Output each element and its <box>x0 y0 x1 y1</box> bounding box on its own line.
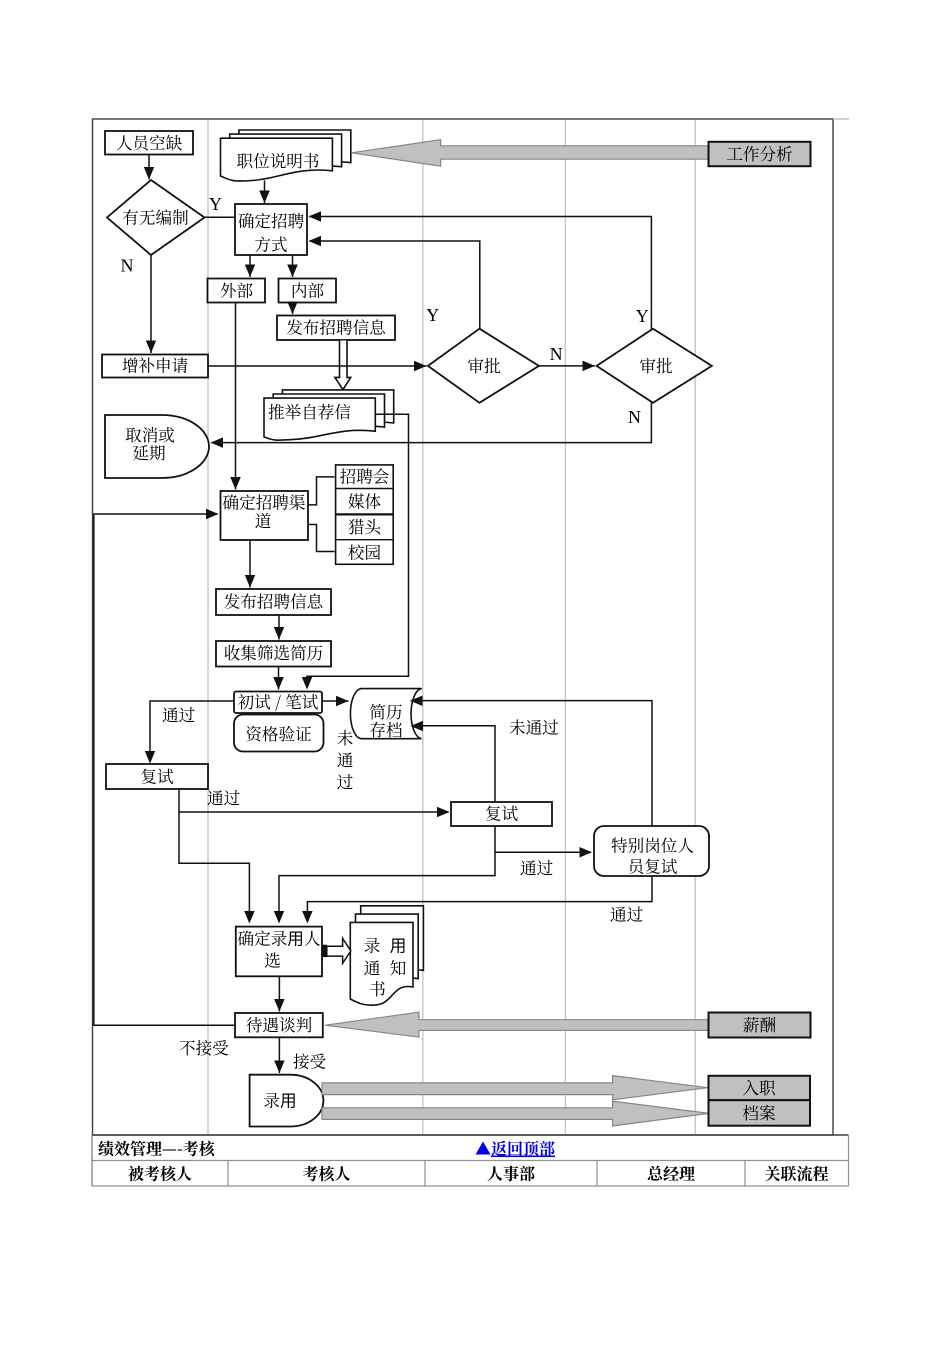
bottom table row separator <box>92 1160 849 1162</box>
wire 审批L-Y feedback to 确定招聘方式 <box>310 241 480 329</box>
svg-text:Y: Y <box>209 194 222 214</box>
svg-text:资格验证: 资格验证 <box>245 721 311 745</box>
channel separator 2 <box>336 513 394 515</box>
terminator 录用 <box>250 1075 324 1127</box>
channel separator 1 <box>336 488 394 490</box>
wire 初试 to 简历存档 <box>322 700 349 702</box>
svg-text:用: 用 <box>390 933 407 957</box>
wire 复试R 未通过 to 简历存档 <box>412 726 496 802</box>
reference box 档案 <box>709 1100 811 1126</box>
svg-text:工作分析: 工作分析 <box>726 141 792 165</box>
wire 特别岗位 通过 chain <box>307 876 652 922</box>
process box 复试L <box>106 764 208 789</box>
gray arrow 工作分析 to 职位说明书 <box>352 140 709 167</box>
wire 审批R N to 取消或延期 <box>212 403 652 443</box>
bottom header cell separator 3 <box>596 1161 598 1187</box>
process box 待遇谈判 <box>235 1013 323 1037</box>
feedback wire 待遇谈判 to 确定招聘渠道 <box>94 514 235 1025</box>
bottom header cell separator 1 <box>227 1161 229 1187</box>
svg-text:录用: 录用 <box>263 1088 296 1112</box>
wire 有无编制 Y to 确定招聘方式 <box>205 216 236 218</box>
svg-text:复试: 复试 <box>140 764 174 788</box>
flowchart outer frame <box>93 119 834 1135</box>
wire 收集 to 初试笔试 <box>278 667 280 690</box>
process box 初试笔试 <box>234 692 322 714</box>
gray arrow 录用 to 入职 <box>322 1076 708 1100</box>
wire 复试L bottom chain <box>179 789 249 922</box>
decision diamond 审批R <box>597 329 712 403</box>
svg-text:方式: 方式 <box>254 232 287 256</box>
svg-text:通过: 通过 <box>610 902 643 926</box>
stored-data shape 简历存档 <box>350 689 421 739</box>
svg-text:通过: 通过 <box>162 702 195 726</box>
svg-text:道: 道 <box>255 508 272 532</box>
svg-text:有无编制: 有无编制 <box>122 205 188 229</box>
svg-text:N: N <box>550 344 563 364</box>
svg-text:录: 录 <box>364 933 381 957</box>
svg-text:入职: 入职 <box>742 1075 776 1099</box>
hollow arrow 确定录用人选 to 录用通知书 <box>322 945 327 957</box>
wire 复试R bottom chain <box>279 826 495 922</box>
wire 发布2 to 收集筛选简历 <box>278 615 280 640</box>
svg-text:员复试: 员复试 <box>628 854 678 878</box>
process box 复试R <box>451 802 552 826</box>
column line 2 <box>422 120 424 1135</box>
svg-text:确定招聘: 确定招聘 <box>238 208 305 232</box>
reference box 工作分析 <box>709 142 811 166</box>
wire 特别岗位 未通过 to 简历存档 <box>411 701 652 826</box>
svg-text:Y: Y <box>426 305 439 325</box>
top-right stub line <box>833 118 849 120</box>
bottom table right border <box>848 1135 850 1186</box>
svg-text:知: 知 <box>390 955 407 979</box>
svg-text:不接受: 不接受 <box>179 1035 229 1059</box>
svg-text:确定录用人: 确定录用人 <box>238 926 321 950</box>
svg-text:媒体: 媒体 <box>348 489 382 513</box>
wire 推举自荐信 to 初试笔试 <box>307 414 409 688</box>
svg-text:职位说明书: 职位说明书 <box>237 148 320 172</box>
terminator 取消或延期 <box>105 415 209 478</box>
svg-text:发布招聘信息: 发布招聘信息 <box>224 589 324 613</box>
bottom table top border <box>92 1134 849 1136</box>
process box 确定录用人选 <box>236 927 322 977</box>
reference box 入职 <box>709 1076 811 1100</box>
wire 确定录用人选 to 待遇谈判 <box>278 976 280 1011</box>
svg-text:审批: 审批 <box>639 353 672 377</box>
svg-text:档案: 档案 <box>742 1100 776 1124</box>
gray arrow 录用 to 档案 <box>322 1101 709 1126</box>
wire 渠道 to 发布招聘信息2 <box>249 540 251 588</box>
svg-text:N: N <box>628 407 641 427</box>
column line 3 <box>564 120 566 1135</box>
svg-text:人事部: 人事部 <box>487 1162 535 1185</box>
process box 人员空缺 <box>105 131 193 155</box>
wire 复试L 通过 to 复试R <box>179 811 449 813</box>
svg-text:待遇谈判: 待遇谈判 <box>246 1012 312 1036</box>
wire 确定招聘方式 to 内部 <box>292 255 294 277</box>
svg-text:薪酬: 薪酬 <box>743 1012 776 1036</box>
column line 4 <box>694 120 696 1135</box>
svg-text:外部: 外部 <box>220 278 254 302</box>
svg-text:复试: 复试 <box>485 801 519 825</box>
svg-text:书: 书 <box>369 976 386 1000</box>
wire 外部 to 确定招聘渠道 <box>235 303 237 490</box>
svg-text:考核人: 考核人 <box>302 1162 350 1185</box>
svg-text:审批: 审批 <box>467 353 500 377</box>
document stack 职位说明书 <box>239 130 351 173</box>
process box 外部 <box>208 279 266 303</box>
svg-text:人员空缺: 人员空缺 <box>116 130 183 154</box>
wire 审批R-Y feedback to 确定招聘方式 <box>310 217 652 330</box>
process box 发布招聘信息2 <box>216 589 331 615</box>
decision diamond 有无编制 <box>107 180 205 255</box>
svg-text:被考核人: 被考核人 <box>128 1162 192 1185</box>
svg-text:绩效管理—-考核: 绩效管理—-考核 <box>98 1137 217 1160</box>
svg-text:招聘会: 招聘会 <box>340 464 390 488</box>
svg-text:延期: 延期 <box>132 440 165 464</box>
process box 增补申请 <box>102 355 208 378</box>
svg-text:内部: 内部 <box>291 278 325 302</box>
svg-text:N: N <box>121 256 134 276</box>
process box 确定招聘方式 <box>235 204 307 255</box>
svg-text:关联流程: 关联流程 <box>764 1162 828 1185</box>
channel separator 3 <box>336 539 394 541</box>
svg-text:通过: 通过 <box>207 785 240 809</box>
svg-text:未通过: 未通过 <box>509 715 559 739</box>
wire 内部 to 发布招聘信息1 <box>292 303 294 315</box>
wire 有无编制 N to 增补申请 <box>150 255 152 353</box>
svg-text:发布招聘信息: 发布招聘信息 <box>286 315 386 339</box>
wire 增补申请 to 审批L <box>208 365 427 367</box>
svg-text:过: 过 <box>337 769 354 793</box>
svg-text:选: 选 <box>264 948 281 972</box>
svg-text:通过: 通过 <box>520 855 553 879</box>
svg-text:未: 未 <box>337 725 354 749</box>
wire 初试 通过 to 复试L <box>150 701 234 762</box>
wire 职位说明书 to 确定招聘方式 <box>264 181 266 204</box>
document stack 推举自荐信 <box>282 390 393 432</box>
bracket wire upper 渠道-招聘会 <box>308 477 335 505</box>
rounded box 资格验证 <box>234 715 324 752</box>
bracket wire lower 渠道-校园 <box>308 525 335 552</box>
svg-text:总经理: 总经理 <box>647 1162 695 1185</box>
process box 发布招聘信息1 <box>277 316 395 341</box>
decision diamond 审批L <box>428 329 539 403</box>
gray arrow 薪酬 to 待遇谈判 <box>325 1012 709 1037</box>
process box 收集筛选简历 <box>216 641 331 667</box>
wire 待遇谈判 to 录用 <box>278 1037 280 1073</box>
svg-text:校园: 校园 <box>348 540 381 564</box>
svg-text:存档: 存档 <box>369 717 402 741</box>
process box 确定招聘渠道 <box>221 491 309 540</box>
svg-text:接受: 接受 <box>293 1049 327 1073</box>
svg-text:收集筛选简历: 收集筛选简历 <box>224 640 324 664</box>
svg-text:猎头: 猎头 <box>348 514 382 538</box>
bottom table bottom border <box>92 1185 849 1187</box>
reference box 薪酬 <box>709 1013 811 1038</box>
svg-text:推举自荐信: 推举自荐信 <box>268 399 351 423</box>
svg-text:增补申请: 增补申请 <box>122 353 188 377</box>
hollow arrow 发布招聘信息 to 推举自荐信 <box>335 341 351 390</box>
svg-text:Y: Y <box>636 306 649 326</box>
bottom header cell separator 2 <box>424 1161 426 1187</box>
svg-text:▲返回顶部: ▲返回顶部 <box>475 1137 555 1160</box>
column line 1 <box>207 120 209 1135</box>
document stack 录用通知书 <box>361 906 424 989</box>
bottom header cell separator 4 <box>744 1161 746 1187</box>
wire 复试R 通过 to 特别岗位 <box>495 851 591 853</box>
process box 内部 <box>279 279 337 303</box>
wire 确定招聘方式 to 外部 <box>249 255 251 277</box>
svg-text:通: 通 <box>337 747 354 771</box>
bottom table left border <box>91 1135 93 1186</box>
wire 人员空缺 to 有无编制 <box>148 155 150 180</box>
channel list box <box>336 465 394 564</box>
svg-text:初试 / 笔试: 初试 / 笔试 <box>238 689 319 713</box>
rounded box 特别岗位人员复试 <box>594 826 709 876</box>
wire 审批L to 审批R <box>539 365 595 367</box>
